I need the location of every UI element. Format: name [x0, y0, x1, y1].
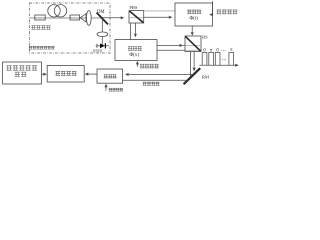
component: WDM coupler rectangle	[35, 15, 45, 20]
wire: beam from DM to PBS with arrowhead	[102, 17, 121, 19]
label: encoder2 name	[128, 46, 132, 50]
label: ellipsis mid pulse row	[222, 58, 226, 61]
wire: fiber link lower line	[123, 79, 188, 81]
wire: lens to pump diode	[101, 37, 103, 46]
wire: BS down beam right to RM with arrow	[193, 52, 195, 68]
box: optical receiver	[47, 66, 84, 83]
component: pump laser diode symbol	[96, 45, 109, 47]
svg-text:PBS: PBS	[129, 5, 138, 10]
wire: encoder2 to BS upper beam with arrow	[157, 44, 180, 46]
box: encoder 1	[175, 3, 213, 26]
label: optical orthogonal code (below decoder)	[109, 88, 112, 91]
wire: decoder to optical receiver with left arrow	[88, 73, 97, 75]
box: encoder 2	[115, 40, 157, 61]
label: superfluorescent fiber source caption	[29, 46, 32, 49]
svg-text:Φ(x): Φ(x)	[129, 51, 139, 58]
component PBS: polarizing beam splitter cube	[129, 11, 144, 23]
wire: BS down beam left to RM	[190, 52, 192, 78]
wire: source to optical receiver with arrow	[42, 73, 44, 75]
wire: encoder2 to BS lower beam	[157, 49, 185, 51]
label: decoder name	[104, 74, 108, 78]
label: source block name line2	[15, 72, 20, 77]
wire: pump beam vertical below DM	[101, 19, 103, 32]
waveform: pulse train baseline with arrow	[200, 64, 236, 66]
label: optical orthogonal code (top right)	[217, 10, 222, 15]
box: decoder	[97, 69, 123, 83]
component BS: beam splitter cube	[185, 36, 201, 52]
component: pump focusing lens (horizontal ellipse)	[97, 32, 108, 37]
waveform: pulse 2	[209, 53, 214, 66]
wire: orthogonal code feed into encoder1	[212, 1, 214, 15]
label: encoder1 name	[187, 10, 191, 14]
wire: main beam line inside source (left of DM)	[30, 17, 102, 19]
label: optical orthogonal code (below encoder2)	[140, 64, 144, 68]
wire: fiber link upper line with left arrow into decoder	[129, 73, 194, 75]
waveform: pulse 4	[229, 53, 234, 66]
waveform: pulse 3	[215, 53, 220, 66]
wire: orthogonal code feed into encoder2 (up arrow)	[136, 64, 138, 67]
waveform: pulse 1	[202, 53, 207, 66]
wire: PBS down beam left	[129, 23, 131, 40]
label: pump LD (faint)	[93, 49, 96, 52]
component: erbium fiber coil (two loops)	[48, 5, 67, 17]
svg-text:BS: BS	[202, 34, 208, 39]
mirror RM (thick 45 deg)	[184, 68, 201, 84]
dashed box: superfluorescent fiber source assembly	[30, 3, 111, 53]
wire: PBS to encoder1 lower beam with arrow	[144, 16, 169, 18]
wire: PBS to encoder1 upper beam	[144, 10, 175, 12]
svg-text:Φ(t): Φ(t)	[189, 15, 198, 22]
label: fiber link	[143, 82, 147, 86]
wire: orthogonal code feed into decoder (up arrow)	[105, 86, 107, 90]
wire: encoder1 down to BS with arrow	[191, 26, 193, 32]
svg-text:RM: RM	[202, 74, 209, 79]
box: superfluorescent fiber source block	[3, 62, 42, 84]
mirror DM (dichroic, 45 deg thick)	[97, 13, 108, 25]
component: fiber output cone	[80, 14, 86, 22]
label: optical receiver name	[56, 71, 61, 76]
wire: PBS down beam right with arrow	[134, 23, 136, 34]
svg-text:DM: DM	[97, 10, 105, 15]
label: erbium-doped fiber	[31, 25, 35, 29]
label: ellipsis in label row	[221, 49, 225, 52]
label: source block name line1	[7, 65, 12, 70]
component: collimating lens (vertical ellipse)	[86, 11, 91, 26]
component: isolator rectangle	[70, 15, 80, 20]
